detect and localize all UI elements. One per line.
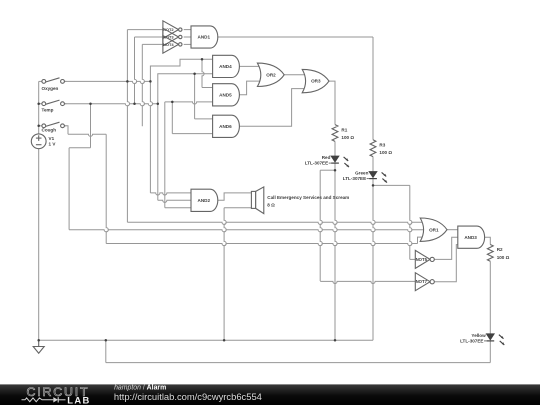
wire ground branch down bbox=[105, 340, 107, 362]
wire AND6 top input bbox=[195, 118, 213, 120]
wire Cough switch jog bbox=[64, 126, 68, 134]
svg-text:V1: V1 bbox=[49, 136, 55, 141]
node Oxygen column junction bbox=[149, 80, 152, 83]
wire AND2 mid input bbox=[158, 200, 191, 202]
wire NOT4 column stub bbox=[142, 44, 144, 126]
svg-text:LAB: LAB bbox=[67, 394, 90, 405]
svg-text:LTL-307EE: LTL-307EE bbox=[343, 176, 366, 181]
and-gate AND5 bbox=[213, 84, 240, 106]
wire red branch down to NOT7 bbox=[320, 170, 322, 281]
wire NOT3 to AND1 bbox=[184, 36, 191, 38]
svg-text:OR2: OR2 bbox=[266, 72, 276, 77]
wire NOT5 output to AND3 bbox=[434, 237, 458, 259]
wire Temp branch return bbox=[69, 147, 90, 149]
wire rail3 Cough bbox=[106, 244, 417, 246]
LED D1 Red LTL-307EE bbox=[305, 155, 349, 167]
svg-text:Temp: Temp bbox=[42, 108, 54, 113]
svg-text:OR3: OR3 bbox=[311, 79, 321, 84]
node Temp-NOT3 junction bbox=[133, 102, 136, 105]
LED D2 Green LTL-307EE bbox=[343, 171, 387, 183]
svg-text:AND4: AND4 bbox=[219, 64, 232, 69]
svg-text:8 Ω: 8 Ω bbox=[267, 203, 275, 208]
wire Oxygen column (NOT2) down to rail1 bbox=[127, 30, 129, 223]
wire Cough riser column bbox=[164, 102, 166, 208]
wire green LED cathode to ground rail bbox=[373, 179, 375, 341]
wire Temp to AND4 bottom input bbox=[158, 74, 213, 104]
wire R2 to yellow LED bbox=[489, 261, 491, 334]
wire Oxygen down to AND2 top bbox=[150, 81, 152, 192]
node red LED junction bbox=[334, 169, 337, 172]
svg-text:NOT4: NOT4 bbox=[163, 42, 174, 47]
svg-text:100 Ω: 100 Ω bbox=[497, 255, 510, 260]
wire AND2 top input bbox=[150, 193, 191, 195]
wire R3 to green LED bbox=[372, 157, 374, 172]
wire AND6 output to OR3 bbox=[239, 89, 308, 127]
wire OR1 output to AND3 bbox=[447, 229, 458, 231]
and-gate AND1 bbox=[191, 26, 218, 48]
and-gate AND6 bbox=[213, 115, 240, 137]
switch SW1 Oxygen bbox=[39, 78, 67, 91]
wire rail1 Oxygen to OR1 bbox=[127, 222, 426, 224]
svg-text:Green: Green bbox=[355, 171, 368, 176]
wire red LED cathode to ground rail bbox=[335, 163, 337, 340]
wire Cough down to rail3 bbox=[106, 134, 108, 243]
svg-text:Call Emergency Services and Sc: Call Emergency Services and Scream bbox=[267, 195, 349, 200]
wire Oxygen to AND4 top input bbox=[150, 59, 212, 81]
switch SW3 Cough bbox=[39, 122, 67, 132]
wire OR2 output to OR3 bbox=[284, 74, 308, 76]
voltage source V1 bbox=[31, 134, 56, 149]
wire R1 to red LED bbox=[334, 141, 336, 156]
node Temp branch junction bbox=[89, 102, 92, 105]
wire NOT2 input bbox=[127, 29, 162, 31]
resistor R2 100ohm bbox=[487, 245, 509, 262]
wire yellow LED cathode down bbox=[489, 341, 491, 363]
switch SW2 Temp bbox=[39, 100, 67, 113]
wire Temp down to AND2 mid bbox=[157, 104, 159, 201]
svg-text:Oxygen: Oxygen bbox=[42, 86, 59, 91]
svg-text:R1: R1 bbox=[341, 127, 347, 132]
inverter NOT3 bbox=[163, 28, 182, 46]
svg-text:R3: R3 bbox=[379, 143, 385, 148]
wire NOT5 input bbox=[410, 258, 416, 260]
svg-text:AND1: AND1 bbox=[198, 35, 211, 40]
wire Temp net horizontal bbox=[64, 104, 157, 106]
wire rail3 jog to OR1 bottom input bbox=[418, 237, 427, 243]
wire ground rail bbox=[39, 339, 373, 341]
or-gate OR1 bbox=[420, 218, 447, 241]
resistor R3 100ohm bbox=[370, 140, 392, 157]
wire Cough branch to AND6 bottom bbox=[171, 102, 173, 134]
node Temp-AND4 junction bbox=[193, 73, 196, 76]
LED D3 Yellow LTL-307EE bbox=[460, 333, 504, 345]
wire NOT7 input bbox=[320, 281, 415, 283]
and-gate AND4 bbox=[213, 55, 240, 77]
node green LED junction bbox=[372, 184, 375, 187]
ground bbox=[33, 340, 44, 353]
wire AND2 bottom input bbox=[165, 207, 191, 209]
wire Cough net horizontal bbox=[68, 134, 106, 136]
CircuitLab logo bbox=[22, 385, 91, 405]
wire speaker return to ground rail bbox=[224, 208, 226, 341]
wire rail2 Temp to OR1 bbox=[69, 230, 427, 232]
svg-text:Yellow: Yellow bbox=[471, 333, 486, 338]
node red ground junction bbox=[334, 339, 337, 342]
wire yellow return rail bbox=[106, 362, 491, 364]
wire green branch bbox=[373, 184, 410, 186]
wire V1 plus column to switches bbox=[38, 81, 40, 133]
wire AND5 bottom input bbox=[165, 102, 213, 104]
inverter NOT7 bbox=[415, 273, 434, 291]
or-gate OR3 bbox=[302, 69, 329, 92]
speaker SP1 bbox=[251, 187, 349, 214]
wire AND3 output to R2 bbox=[485, 237, 490, 244]
wire OR3 output to R1 bbox=[329, 81, 335, 125]
wire AND5 output to OR2 bbox=[239, 81, 263, 95]
wire Oxygen drop to AND5 top bbox=[202, 59, 204, 87]
wire V1 minus column to ground rail bbox=[38, 149, 40, 341]
svg-text:Red: Red bbox=[322, 155, 331, 160]
node speaker ground junction bbox=[223, 339, 226, 342]
node Oxygen-AND4 junction bbox=[201, 58, 204, 61]
svg-text:AND5: AND5 bbox=[219, 92, 232, 97]
wire AND2 output to speaker bbox=[216, 193, 251, 200]
svg-text:100 Ω: 100 Ω bbox=[341, 135, 354, 140]
wire NOT4 input bbox=[142, 43, 163, 45]
wire AND5 top input bbox=[202, 87, 213, 89]
svg-text:AND2: AND2 bbox=[198, 198, 211, 203]
inverter NOT2 bbox=[163, 21, 182, 39]
node V1-Temp junction bbox=[37, 102, 40, 105]
wire Temp down to rail2 bbox=[68, 148, 70, 230]
wire AND4 output to OR2 bbox=[239, 65, 263, 67]
wire NOT2 to AND1 bbox=[184, 29, 191, 31]
node ground junction bbox=[37, 339, 40, 342]
and-gate AND2 bbox=[191, 189, 218, 211]
wire Temp drop to AND6 top bbox=[194, 74, 196, 119]
svg-text:AND6: AND6 bbox=[219, 124, 232, 129]
and-gate AND3 bbox=[458, 226, 485, 248]
wire AND6 bottom input bbox=[172, 133, 212, 135]
svg-text:LTL-307EE: LTL-307EE bbox=[460, 338, 483, 343]
svg-text:R2: R2 bbox=[497, 247, 503, 252]
node V1-Cough junction bbox=[37, 125, 40, 128]
svg-text:Cough: Cough bbox=[42, 128, 57, 133]
inverter NOT4 bbox=[163, 36, 182, 54]
node Temp column junction bbox=[157, 102, 160, 105]
inverter NOT5 bbox=[415, 250, 434, 268]
node Oxygen-NOT2 junction bbox=[126, 80, 128, 83]
wire red branch bbox=[320, 169, 335, 171]
wire NOT3 column down to Temp line bbox=[135, 37, 137, 104]
or-gate OR2 bbox=[257, 63, 284, 86]
svg-text:1 V: 1 V bbox=[49, 142, 57, 147]
resistor R1 100ohm bbox=[332, 125, 354, 142]
wire speaker bottom terminal bbox=[224, 207, 251, 209]
svg-text:LTL-307EE: LTL-307EE bbox=[305, 161, 328, 166]
wire bbox=[372, 339, 374, 341]
node ground rail branch junction bbox=[105, 339, 108, 342]
svg-text:NOT5: NOT5 bbox=[416, 257, 428, 262]
svg-text:OR1: OR1 bbox=[429, 227, 439, 232]
wire green branch down to NOT5 bbox=[410, 185, 412, 259]
wire NOT7 output to AND3 bbox=[434, 245, 458, 282]
wire Oxygen net horizontal bbox=[64, 81, 150, 83]
svg-text:http://circuitlab.com/c9cwyrcb: http://circuitlab.com/c9cwyrcb6c554 bbox=[114, 391, 262, 402]
wire NOT3 input bbox=[135, 36, 163, 38]
svg-text:100 Ω: 100 Ω bbox=[379, 150, 392, 155]
svg-text:AND3: AND3 bbox=[464, 235, 477, 240]
wire Temp branch down bbox=[90, 104, 92, 148]
wire AND1 output down to R3 bbox=[372, 37, 374, 140]
wire AND1 output bbox=[217, 36, 373, 38]
svg-text:NOT7: NOT7 bbox=[416, 279, 428, 284]
node Cough-AND6 junction bbox=[171, 101, 174, 104]
wire NOT4 to AND1 bbox=[184, 43, 191, 45]
